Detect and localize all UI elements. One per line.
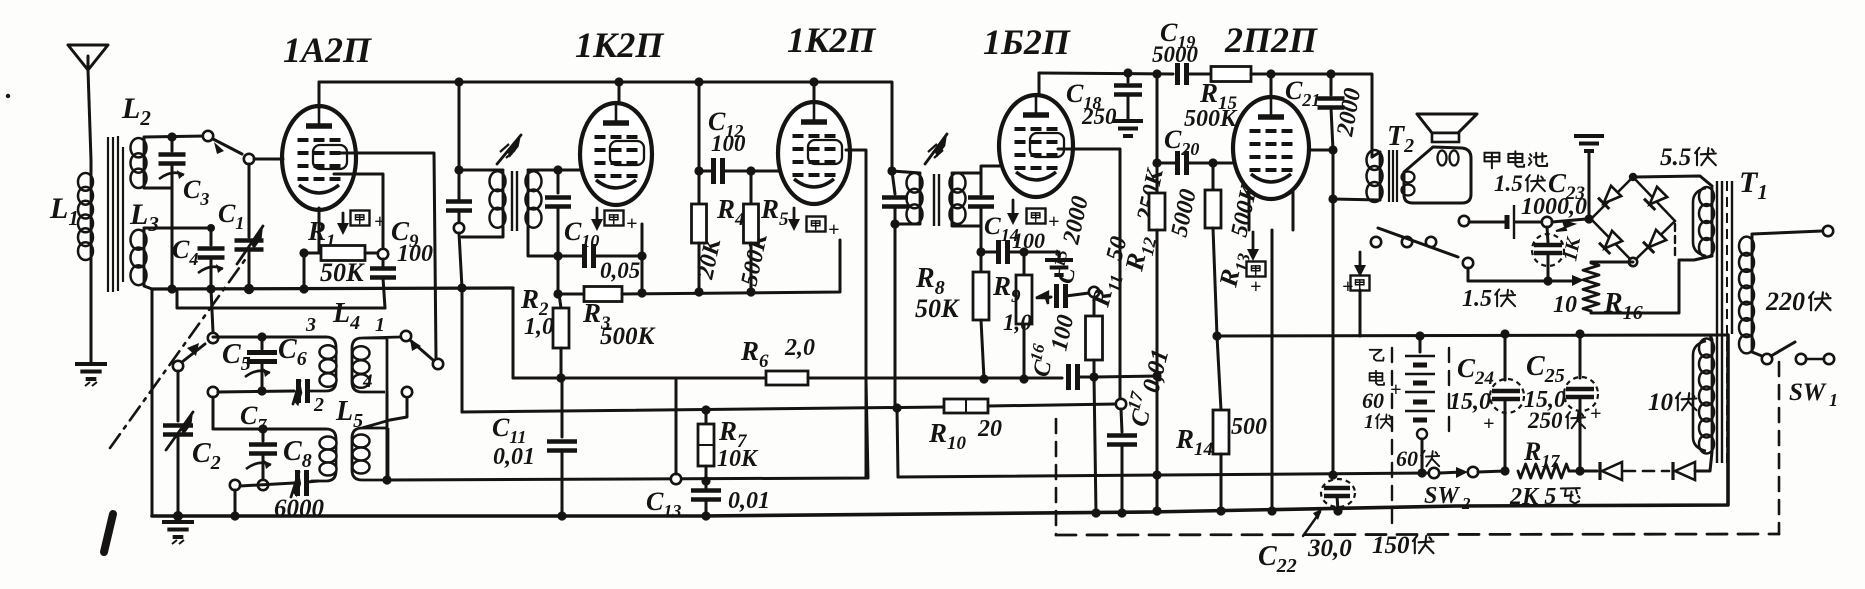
band switch S1b xyxy=(173,361,183,371)
wire AVC jog y308 xyxy=(177,291,385,308)
wire V1 screen to C9 node xyxy=(334,174,383,249)
battery symbol A+ (V2) xyxy=(605,211,624,226)
svg-text:17: 17 xyxy=(1123,389,1147,412)
wire R1 left to bus xyxy=(303,253,306,289)
wire R16 to bridge right xyxy=(1591,262,1679,313)
svg-text:SW: SW xyxy=(1789,379,1827,406)
capacitor C8 6000 xyxy=(230,480,240,490)
capacitor IF1 primary xyxy=(458,82,461,170)
svg-text:1,0: 1,0 xyxy=(524,314,554,340)
svg-text:15: 15 xyxy=(1049,248,1071,269)
capacitor IF2 primary xyxy=(887,166,896,175)
wire wiper to R16 xyxy=(1548,280,1577,283)
svg-text:L5: L5 xyxy=(335,396,363,432)
svg-text:0,01: 0,01 xyxy=(728,488,770,514)
wire V1 cathode down xyxy=(318,208,321,253)
svg-text:6000: 6000 xyxy=(274,495,325,522)
switch SW2 xyxy=(1429,468,1439,478)
svg-text:15,0: 15,0 xyxy=(1449,389,1491,415)
wire L4 secondary down to detector rail xyxy=(386,392,389,480)
svg-text:C11: C11 xyxy=(492,413,526,447)
svg-text:100: 100 xyxy=(1046,313,1079,354)
svg-text:+: + xyxy=(1590,403,1601,425)
C22 label arrow xyxy=(1303,512,1320,536)
svg-text:500: 500 xyxy=(1231,414,1267,440)
svg-text:1: 1 xyxy=(1364,411,1374,433)
IF2 core xyxy=(934,174,939,226)
dashed enclosure bottom xyxy=(1056,534,1779,535)
wire R11 node to bus xyxy=(1094,377,1096,513)
wire bus to switch xyxy=(211,289,213,332)
svg-text:250: 250 xyxy=(1527,408,1563,433)
dashed link diodes xyxy=(1624,470,1669,473)
wire V1 plate to HT rail xyxy=(318,82,321,108)
wire C19 bypass from C20 node xyxy=(1156,74,1159,163)
T2 core xyxy=(1389,150,1397,202)
wire V5 filament to bus xyxy=(1271,230,1274,511)
wire V3 plate to HT xyxy=(813,82,816,103)
capacitor C10 0.05 xyxy=(553,251,562,260)
svg-text:R10: R10 xyxy=(928,418,967,454)
capacitor IF1 secondary xyxy=(553,165,562,174)
svg-text:2: 2 xyxy=(1461,494,1471,513)
wire V2 grid xyxy=(558,169,581,172)
box edge right xyxy=(1710,334,1728,337)
svg-text:C22: C22 xyxy=(1258,541,1297,577)
svg-text:1Б2П: 1Б2П xyxy=(983,22,1071,62)
coil L5 secondary winding loop xyxy=(352,420,390,480)
IF1 core xyxy=(512,171,517,231)
wire rail D to rail C xyxy=(897,408,898,477)
capacitor IF2 secondary xyxy=(980,173,983,194)
R10 screen rail D y410 xyxy=(462,407,944,412)
ground C14 xyxy=(1045,260,1073,275)
svg-text:+: + xyxy=(1483,413,1494,435)
wire V2 plate to HT xyxy=(618,82,621,104)
svg-text:+: + xyxy=(828,219,839,241)
svg-text:1.5: 1.5 xyxy=(1494,171,1523,196)
svg-text:L2: L2 xyxy=(121,92,151,130)
svg-text:10: 10 xyxy=(1553,292,1577,318)
svg-text:1: 1 xyxy=(375,314,385,336)
wire antenna to ground xyxy=(90,258,93,362)
rectifier diode D1 xyxy=(1580,470,1597,473)
wire L5 tap to terminal xyxy=(390,397,407,420)
wire C20 to V5 grid xyxy=(1213,162,1236,165)
svg-text:C6: C6 xyxy=(278,334,307,370)
battery symbol A+ (V3) xyxy=(807,217,826,232)
wire V5 plate to C21 node xyxy=(1309,149,1333,152)
svg-text:L1: L1 xyxy=(49,192,79,230)
wire IF2 to V4 grid xyxy=(981,166,1000,173)
capacitor C4 xyxy=(207,224,215,232)
svg-text:10К: 10К xyxy=(717,446,759,472)
svg-text:1К2П: 1К2П xyxy=(575,25,664,65)
svg-text:C2: C2 xyxy=(192,438,221,474)
filament arrow V1 xyxy=(342,213,345,226)
svg-text:C25: C25 xyxy=(1526,351,1565,387)
loudspeaker xyxy=(1417,114,1477,133)
svg-text:R14: R14 xyxy=(1175,424,1213,460)
transformer core L1-L2/L3 xyxy=(108,136,123,292)
svg-text:60: 60 xyxy=(1362,388,1384,413)
bridge diode D3 xyxy=(1604,186,1622,204)
svg-text:SW: SW xyxy=(1424,483,1460,509)
ground power section xyxy=(1574,136,1604,151)
svg-text:50К: 50К xyxy=(320,258,365,287)
resistor R9 1.0 potentiometer xyxy=(1023,252,1026,275)
svg-text:500К: 500К xyxy=(600,323,657,350)
gang dash line C2-C1 xyxy=(110,257,247,448)
wire V3 cathode to IF2 / down xyxy=(846,150,866,478)
wire jack to C23 row xyxy=(1468,268,1548,281)
svg-text:4: 4 xyxy=(362,371,373,392)
phone jack switch xyxy=(1371,237,1381,247)
svg-text:100: 100 xyxy=(711,131,746,156)
wire V2 cathode xyxy=(641,224,644,256)
R9 wiper arrow xyxy=(1036,292,1048,304)
svg-text:100: 100 xyxy=(397,241,433,267)
svg-text:2000: 2000 xyxy=(1058,194,1094,247)
capacitor C22 30.0 electrolytic xyxy=(1321,479,1355,507)
svg-text:30,0: 30,0 xyxy=(1307,535,1352,562)
svg-text:C24: C24 xyxy=(1457,353,1494,389)
capacitor C5 xyxy=(257,332,266,341)
battery symbol A+ (V1) xyxy=(351,211,370,226)
AVC rail y293 xyxy=(557,256,560,294)
svg-text:5000: 5000 xyxy=(1166,187,1201,239)
wire V4 diode out xyxy=(1058,149,1120,399)
svg-text:C8: C8 xyxy=(283,436,312,472)
wire C13 node up xyxy=(675,380,678,474)
svg-text:0,01: 0,01 xyxy=(493,444,535,470)
rail y336 filament supply xyxy=(1217,335,1712,340)
antenna xyxy=(68,45,108,70)
SW2 rail y475 xyxy=(898,473,1429,477)
svg-text:+: + xyxy=(1342,276,1353,298)
svg-text:2К 5: 2К 5 xyxy=(1509,484,1556,510)
bridge diode D4 xyxy=(1650,187,1668,205)
ground C18 xyxy=(1113,121,1143,136)
bus corner to rail B xyxy=(512,288,515,378)
bus ground rail left y289 xyxy=(152,288,513,289)
IF transformer 2 primary coil xyxy=(892,171,920,173)
HT rail y82 xyxy=(319,82,892,171)
svg-text:C5: C5 xyxy=(222,339,251,375)
panel mark I xyxy=(104,514,113,552)
main ground bus xyxy=(152,335,1728,516)
bridge diode D5 xyxy=(1605,231,1623,249)
svg-text:20: 20 xyxy=(977,416,1002,442)
svg-text:500К: 500К xyxy=(1184,106,1238,132)
svg-text:1000,0: 1000,0 xyxy=(1521,194,1587,220)
filament arrow V4 xyxy=(1012,200,1015,216)
resistor R3 500K xyxy=(584,287,622,302)
wire row y429 xyxy=(213,397,262,429)
svg-text:C13: C13 xyxy=(646,487,681,521)
svg-text:2: 2 xyxy=(313,394,324,416)
ground antenna xyxy=(75,364,107,379)
svg-text:16: 16 xyxy=(1026,342,1048,363)
wire V4 plate to HT rail xyxy=(1038,73,1041,95)
svg-text:R4: R4 xyxy=(716,194,745,230)
svg-text:+: + xyxy=(626,213,637,235)
dashed enclosure right xyxy=(1778,362,1781,534)
svg-text:+: + xyxy=(1048,211,1059,233)
IF1 tuning arrow xyxy=(497,135,521,164)
IF transformer 1 primary coil xyxy=(459,169,503,172)
ground C2 xyxy=(162,522,194,537)
wire V2 cathode to AVC xyxy=(641,256,644,293)
svg-text:2П2П: 2П2П xyxy=(1224,20,1318,60)
wire L3 column down xyxy=(151,289,154,516)
svg-text:5.5: 5.5 xyxy=(1660,144,1691,171)
battery B (乙电) 60V xyxy=(1419,336,1422,352)
svg-text:+: + xyxy=(1250,276,1261,298)
wire row y391 xyxy=(208,387,218,397)
screen rail B y378 xyxy=(513,377,766,380)
dashed enclosure left xyxy=(1055,419,1058,535)
HT rail y73 output stage xyxy=(1039,73,1173,74)
svg-text:2000: 2000 xyxy=(1332,86,1366,139)
svg-text:C1: C1 xyxy=(218,199,244,233)
svg-text:220: 220 xyxy=(1765,287,1805,316)
battery symbol A+ (audio) xyxy=(1359,252,1362,268)
dashed partition battery B xyxy=(1448,348,1450,431)
svg-text:+: + xyxy=(374,211,385,233)
svg-text:C21: C21 xyxy=(1285,76,1320,110)
svg-text:10: 10 xyxy=(1648,389,1674,416)
svg-text:1: 1 xyxy=(1829,390,1838,410)
wire R12 node to SW2 rail and bus xyxy=(1156,376,1159,511)
wire detector rail E xyxy=(387,380,868,480)
switch SW1 xyxy=(1762,354,1772,364)
coil L4 secondary winding loop xyxy=(352,337,400,392)
battery A cell 1.5V xyxy=(1469,221,1504,224)
svg-text:C4: C4 xyxy=(172,235,198,269)
svg-text:1К: 1К xyxy=(1559,234,1585,262)
svg-text:R5: R5 xyxy=(760,194,789,230)
band switch S1a top xyxy=(203,131,213,141)
capacitor C3 xyxy=(167,132,176,141)
wire V5 plate to HT xyxy=(1270,74,1273,97)
rectifier bridge xyxy=(1591,177,1675,221)
IF1 secondary coil xyxy=(527,172,530,227)
wire V1 grid from C1 xyxy=(254,158,283,161)
wire oscillator top y337 xyxy=(213,336,281,339)
filament arrow V2 xyxy=(596,208,599,222)
svg-text:250: 250 xyxy=(1081,104,1117,129)
resistor R15 500K xyxy=(1211,67,1251,82)
wire C8 to bus xyxy=(234,490,237,516)
svg-text:1,0: 1,0 xyxy=(1003,310,1032,335)
svg-text:C3: C3 xyxy=(183,175,209,209)
wire C14 to ground stub xyxy=(1024,252,1059,258)
svg-text:1К2П: 1К2П xyxy=(787,20,876,60)
dashed partition battery A xyxy=(1391,348,1393,532)
svg-text:50К: 50К xyxy=(915,294,960,323)
svg-text:1.5: 1.5 xyxy=(1462,286,1492,312)
svg-text:60: 60 xyxy=(1396,446,1418,471)
IF2 secondary coil xyxy=(951,175,954,222)
coil L1 xyxy=(90,175,93,258)
filament arrow V3 xyxy=(793,208,796,222)
battery symbol A+ (V5) xyxy=(1247,262,1266,277)
wire C21 node down to SW2 rail xyxy=(1332,199,1335,475)
filament arrow V5 xyxy=(1252,232,1255,252)
capacitor C17 0.01 xyxy=(1116,399,1126,409)
svg-text:T1: T1 xyxy=(1739,166,1768,204)
IF2 tuning arrow xyxy=(925,134,947,164)
variable capacitor C2 xyxy=(177,371,180,421)
svg-text:0,05: 0,05 xyxy=(600,258,640,283)
svg-text:R6: R6 xyxy=(740,336,769,372)
svg-text:L4: L4 xyxy=(332,298,360,334)
wire V1 to IF1 (y156) xyxy=(340,153,436,358)
svg-text:150: 150 xyxy=(1372,532,1410,559)
wire A+ to rail xyxy=(1359,290,1362,336)
svg-text:T2: T2 xyxy=(1387,121,1414,157)
battery symbol A+ (V4) xyxy=(1027,209,1046,224)
svg-text:100: 100 xyxy=(1012,228,1045,253)
band switch S1c xyxy=(401,331,411,341)
svg-text:R16: R16 xyxy=(1603,288,1643,324)
svg-text:1А2П: 1А2П xyxy=(283,30,372,70)
svg-text:3: 3 xyxy=(305,314,316,336)
bridge diode D6 xyxy=(1649,230,1667,248)
rectifier diode D2 xyxy=(1671,462,1674,480)
V5 skirt xyxy=(1248,192,1251,230)
svg-text:2,0: 2,0 xyxy=(784,335,815,361)
capacitor C9 100 xyxy=(378,249,388,259)
